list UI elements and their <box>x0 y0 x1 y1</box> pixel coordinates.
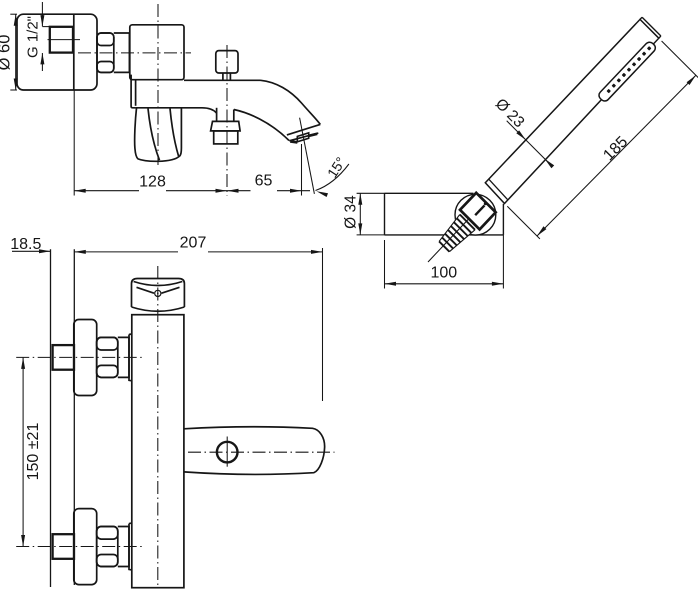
spout arm (plan view) <box>184 427 325 475</box>
socket middle prong (thick) <box>475 205 484 215</box>
inlet hex nut <box>97 527 118 567</box>
wall nipple (thick) <box>53 534 74 559</box>
inlet escutcheon <box>74 509 97 585</box>
hand shower handle body <box>485 19 659 203</box>
spout outer curve <box>261 80 321 124</box>
handshower outlet flare <box>211 121 241 130</box>
aerator insert <box>297 133 308 142</box>
dim O60 <box>10 13 17 15</box>
arm centerline <box>188 451 335 453</box>
diverter circle (plan) <box>217 442 238 463</box>
handle end cap <box>642 17 661 36</box>
dim 150 +-21 <box>22 357 24 546</box>
dim 128 / 65 baseline <box>74 190 139 192</box>
svg-text:207: 207 <box>180 235 207 252</box>
eccentric union G1/2 connector (thick section) <box>50 27 73 53</box>
15deg slanted extension <box>300 118 315 194</box>
diverter knob <box>216 51 238 73</box>
svg-text:Ø 60: Ø 60 <box>0 35 14 71</box>
dim 185 <box>662 41 698 79</box>
bar body (plan) <box>132 315 184 588</box>
inlet flare <box>129 523 132 570</box>
cartridge body <box>130 25 184 80</box>
union top edge extension <box>42 26 49 28</box>
bar centerline <box>157 266 159 586</box>
svg-text:G 1/2": G 1/2" <box>25 16 42 58</box>
svg-text:Ø 34: Ø 34 <box>342 195 359 229</box>
bracket hub circle <box>455 194 496 235</box>
hex nut (side view) <box>97 33 114 72</box>
lever front contour lines <box>148 109 160 161</box>
svg-text:18.5: 18.5 <box>10 236 41 253</box>
body lower left edge <box>131 75 136 108</box>
svg-text:150 ±21: 150 ±21 <box>25 423 42 481</box>
inlet cylinder <box>118 337 129 377</box>
inlet flare <box>129 334 132 381</box>
dim 18.5 <box>12 250 51 252</box>
inlet cylinder <box>118 527 129 567</box>
hose axis centerline <box>428 209 478 262</box>
svg-text:65: 65 <box>255 172 273 189</box>
dim 100 <box>384 240 386 289</box>
inlet escutcheon <box>74 320 97 396</box>
shower bracket wall box <box>385 192 474 194</box>
aerator face thick marks <box>290 141 297 142</box>
dim G 1/2" <box>41 2 43 26</box>
handle lower ring <box>489 179 508 200</box>
wall flange escutcheon (side view) <box>17 14 97 90</box>
inlet hex nut <box>97 337 118 377</box>
extension line flange front to dim <box>73 90 75 196</box>
valve axis centerline <box>78 52 191 54</box>
dim 207 <box>74 251 178 253</box>
knob stem <box>222 73 224 80</box>
svg-text:100: 100 <box>430 264 457 281</box>
svg-text:128: 128 <box>139 173 166 190</box>
extension line spout outlet <box>301 144 303 196</box>
extension line arm tip <box>322 248 324 401</box>
inlet centerline <box>16 356 144 358</box>
wall nipple (thick) <box>53 345 74 370</box>
spout outlet band <box>287 124 320 134</box>
body vertical centerline <box>157 4 159 165</box>
valve cylinder <box>114 33 130 72</box>
dim O23 <box>507 121 551 165</box>
handshower outlet nut <box>214 131 238 144</box>
dim O34 <box>357 192 385 194</box>
flange joint line <box>73 14 75 90</box>
holder socket section (thick) <box>460 193 496 230</box>
spray nozzle strip <box>597 40 657 103</box>
diverter axis centerline <box>226 45 228 196</box>
spout base bottom edge + corner <box>136 108 217 113</box>
inlet centerline <box>16 546 144 548</box>
15deg arc <box>316 164 349 191</box>
wall line <box>50 249 52 587</box>
spout base top edge <box>184 79 261 81</box>
handshower outlet neck <box>216 108 218 122</box>
union pipe centerline <box>48 39 81 41</box>
lever knob (plan view) <box>132 279 185 308</box>
lever handle (side view) <box>135 108 182 161</box>
hose nut threads <box>438 213 476 253</box>
spout inner (underside) curve <box>234 110 289 141</box>
flange front plane line <box>73 249 75 585</box>
